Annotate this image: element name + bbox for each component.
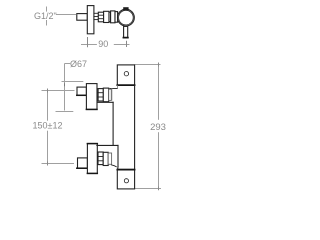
svg-text:293: 293: [150, 122, 166, 133]
svg-text:G1/2": G1/2": [34, 11, 57, 21]
svg-text:Ø67: Ø67: [70, 59, 87, 69]
svg-text:90: 90: [98, 39, 108, 49]
svg-text:150±12: 150±12: [33, 121, 63, 131]
